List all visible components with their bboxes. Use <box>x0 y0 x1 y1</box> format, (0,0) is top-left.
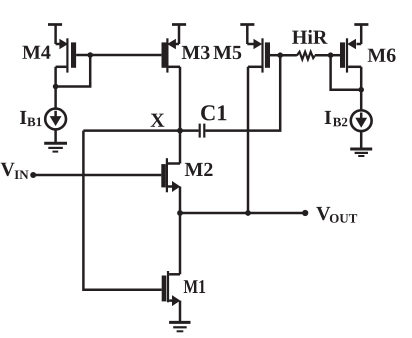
transistor M2 <box>161 158 180 192</box>
label C1 <box>201 105 226 120</box>
wire VOUT <box>180 212 305 215</box>
wire M1 source to ground <box>179 301 182 322</box>
transistor M3 <box>162 25 181 73</box>
wire M4 gate-drain diode tie <box>56 55 91 87</box>
wire M5 drain to VOUT <box>247 67 250 213</box>
wire VIN to M2 gate <box>33 174 161 177</box>
current source IB1 <box>45 109 66 130</box>
wire IB1 to ground <box>54 129 57 142</box>
transistor M1 <box>162 271 181 306</box>
label X <box>151 114 165 127</box>
label M4 <box>22 46 50 59</box>
junction dot VOUT left <box>177 210 183 216</box>
ground M1 <box>169 322 190 331</box>
wire X to M1 gate (left vertical) <box>83 131 161 290</box>
wire node X to C1 <box>180 129 199 132</box>
wire M6 gate-drain diode tie <box>331 55 362 89</box>
wire node X left <box>83 129 180 132</box>
power VDD bar M5 <box>240 23 254 26</box>
terminal VIN <box>30 172 36 178</box>
wire M6 drain down <box>360 67 363 111</box>
wire M3 drain to node X <box>179 67 182 131</box>
label VOUT <box>316 207 357 223</box>
wire M4 drain to IB1 <box>54 67 57 109</box>
junction dot M5 gate <box>277 52 283 58</box>
ground IB1 <box>44 143 67 151</box>
node X junction dot <box>177 128 183 134</box>
label M3 <box>182 46 210 59</box>
resistor HiR <box>280 52 330 60</box>
wire IB2 to ground <box>360 131 363 148</box>
label M1 <box>184 280 205 293</box>
transistor M4 <box>56 25 91 73</box>
label VIN <box>1 163 29 179</box>
power VDD bar M6 <box>354 23 368 26</box>
terminal VOUT <box>302 210 308 216</box>
junction dot VOUT mid <box>245 210 251 216</box>
capacitor C1 <box>200 124 205 138</box>
label IB2 <box>325 111 348 126</box>
ground IB2 <box>350 149 372 156</box>
wire X node to M2 drain <box>179 131 182 164</box>
wire M4 gate to M3 gate <box>90 54 161 57</box>
wire C1 to M5 gate <box>205 55 280 130</box>
label M6 <box>368 49 396 62</box>
current source IB2 <box>351 110 372 131</box>
label M2 <box>185 163 213 176</box>
junction dot M4 drain <box>53 84 59 90</box>
wire M2 source to VOUT <box>179 187 182 214</box>
label M5 <box>213 46 241 59</box>
transistor M6 <box>331 25 362 73</box>
junction dot M6 gate <box>328 52 334 58</box>
transistor M5 <box>247 25 280 73</box>
label IB1 <box>20 111 42 126</box>
power VDD bar M3 <box>172 23 186 26</box>
label HiR <box>292 30 327 44</box>
wire VOUT to M1 drain <box>179 213 182 274</box>
junction dot M6 drain <box>358 87 364 93</box>
junction dot M4 gate <box>87 52 93 58</box>
power VDD bar M4 <box>48 23 62 26</box>
